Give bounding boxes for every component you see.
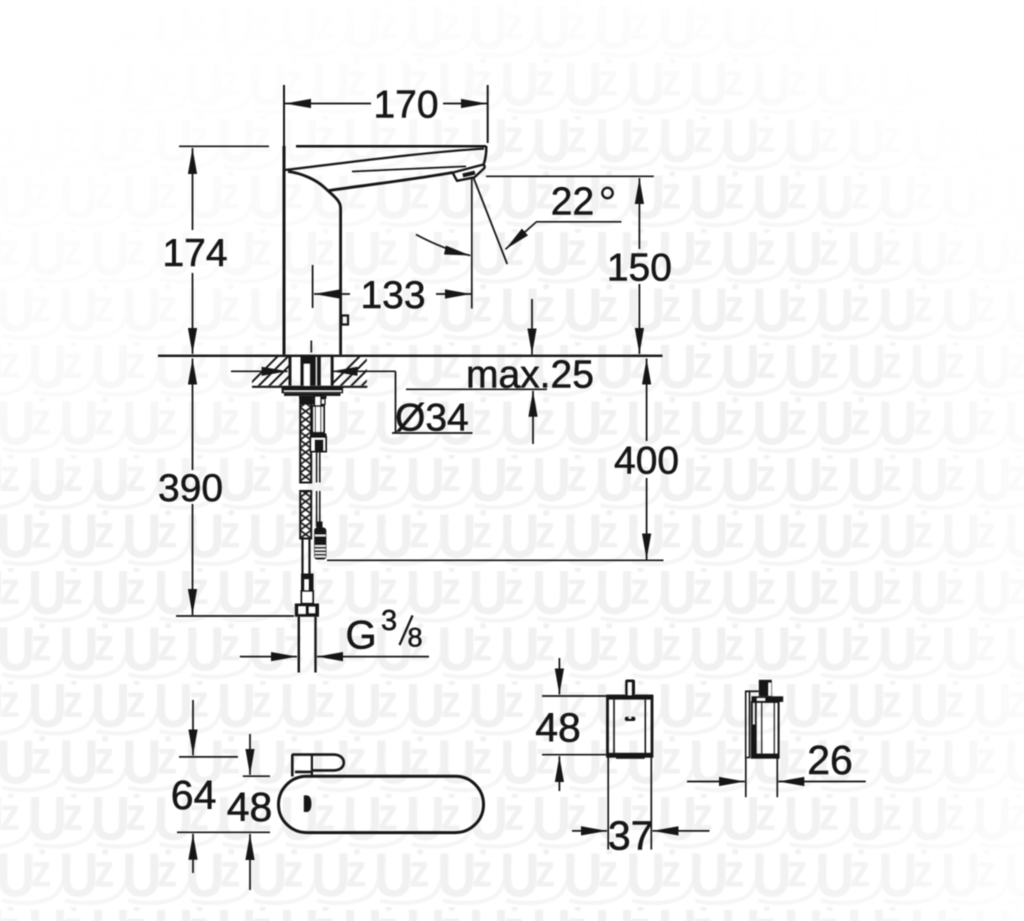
dimension 48 bottom arrow (249, 834, 251, 890)
dimension 64 bottom arrow (192, 834, 194, 873)
dimension 26 arrows (687, 781, 745, 783)
top view spout tab (292, 755, 344, 777)
hose plain tube (301, 539, 303, 575)
svg-text:max.25: max.25 (466, 353, 594, 396)
horizontal reference line at aerator level (486, 175, 654, 177)
svg-text:48: 48 (227, 784, 273, 830)
G3/8 dimension arrows (240, 656, 297, 658)
sensor cable fitting (312, 406, 324, 433)
dimension 174 line lower with arrow (192, 273, 194, 354)
deck hatching left (244, 354, 322, 390)
dimension 150 line lower arrow (638, 284, 640, 354)
dimension 174 line upper with arrow (192, 148, 194, 230)
faucet spout crease line (352, 166, 466, 171)
svg-text:170: 170 (373, 84, 438, 127)
dimension 48 top arrow (249, 734, 251, 775)
aerator housing (453, 165, 485, 181)
dimension 174 top extension line (179, 145, 269, 147)
control box outline (608, 696, 653, 756)
svg-text:G: G (346, 614, 377, 658)
svg-text:174: 174 (162, 232, 227, 275)
hose collar (301, 574, 314, 592)
dimension 150 line upper arrow (638, 178, 640, 249)
top view tab division line (311, 755, 313, 777)
dimension 390 upper arrow (192, 359, 194, 471)
bottom extension line shared (177, 831, 270, 833)
side box top cap (752, 696, 784, 702)
aerator slot (463, 173, 475, 176)
dimension 64 top arrow (192, 700, 194, 755)
sensor cable upper (317, 452, 320, 527)
diameter 34 leader (392, 371, 473, 433)
dimension 37 extension lines (607, 757, 609, 850)
max.25 lower arrow (532, 391, 534, 444)
control box top band (606, 695, 653, 700)
dimension 48 right bottom arrow (558, 756, 560, 791)
dimension 170 extension line left (283, 85, 285, 147)
control box bottom band (608, 753, 653, 757)
dimension 390 lower arrow (192, 504, 194, 615)
svg-text:64: 64 (171, 772, 217, 818)
dimension 170 line with arrows (285, 103, 371, 105)
box48 bottom extension line (542, 754, 606, 756)
22 degree leader arrow (506, 228, 531, 250)
sensor cable lower (316, 491, 318, 527)
dimension 48 top extension line (243, 775, 270, 777)
side box lower-left blob (752, 725, 756, 758)
control box nub (625, 680, 635, 696)
dimension 390 bottom extension line (176, 615, 294, 617)
side box nub (759, 680, 772, 697)
svg-text:390: 390 (158, 467, 223, 510)
svg-text:22: 22 (551, 181, 594, 224)
svg-text:400: 400 (614, 440, 679, 483)
vertical reference line from aerator (471, 177, 473, 309)
svg-text:48: 48 (535, 705, 581, 751)
faucet spout underside (329, 173, 453, 191)
svg-text:26: 26 (807, 737, 853, 783)
svg-text:3: 3 (381, 605, 397, 637)
dimension 26 extension lines (745, 758, 747, 797)
water stream line 22 degrees (474, 178, 508, 264)
countertop deck top line (158, 355, 663, 357)
sensor swing arc with arrow (416, 235, 470, 256)
dimension 37 arrows (572, 830, 607, 832)
faucet shank through deck (dark bars) (289, 357, 334, 386)
braided supply hose upper section (300, 399, 311, 539)
dimension 48 right top arrow (558, 658, 560, 695)
G3/8 connection nut (295, 604, 319, 617)
hose lower fitting (302, 591, 314, 604)
side box body (752, 702, 779, 758)
svg-text:37: 37 (608, 812, 654, 858)
control box inner lines (613, 700, 615, 753)
faucet spout top line (296, 145, 486, 148)
braided supply hose lower section (300, 491, 311, 539)
sensor cable connector (317, 522, 323, 528)
sensor window on column (342, 316, 349, 325)
svg-text:150: 150 (607, 247, 672, 290)
dimension 133 line with arrows (314, 293, 350, 295)
diameter 34 arrows (231, 370, 288, 372)
dimension 133 extension line (312, 265, 314, 308)
top view sensor dot (304, 795, 312, 812)
side box left flange (746, 691, 750, 757)
mounting washer under deck (282, 387, 344, 405)
svg-text:8: 8 (408, 623, 423, 653)
control box small mark (625, 717, 636, 721)
centerline tick at base (310, 341, 312, 353)
dimension 170 extension line right (487, 85, 489, 143)
faucet neck curve and column right edge (288, 172, 341, 355)
faucet left edge (283, 146, 286, 355)
svg-text:Ø34: Ø34 (395, 397, 469, 440)
dimension 400 bottom extension line (327, 559, 664, 561)
box48 top extension line (542, 695, 606, 697)
22 degree leader line (506, 222, 622, 249)
sensor cable nut (310, 434, 327, 438)
countertop deck bottom line (252, 386, 367, 388)
top view tab inner mark (295, 771, 312, 774)
faucet spout band line (285, 149, 484, 170)
tube below nut (299, 617, 316, 673)
max.25 upper arrow (531, 299, 533, 355)
svg-text:133: 133 (360, 274, 425, 317)
side box bottom band (752, 754, 779, 758)
faucet spout tip edge (484, 146, 487, 165)
dimension 400 upper arrow (646, 359, 648, 442)
max.25 underline (406, 388, 547, 390)
sensor cable rod top (315, 396, 322, 406)
dimension 64 top extension line (179, 756, 238, 758)
dimension 400 lower arrow (646, 478, 648, 560)
deck hatching right (326, 354, 394, 390)
top view body oval (279, 776, 484, 832)
